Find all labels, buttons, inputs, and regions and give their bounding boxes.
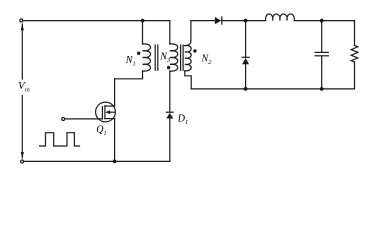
wire top rail (Vin+ to N3 top corner) [23,20,170,22]
label Q1 [96,124,106,137]
gate terminal circle [62,118,65,121]
label N2 [201,53,213,66]
wire N2 top lead up to secondary rail [185,21,191,46]
diode D1 (reset diode, cathode up) [166,112,173,118]
label N1 [125,55,136,68]
wire gate lead [65,118,102,120]
Vin source arrow (double-headed, gap for label) [21,24,24,159]
wire N2 bottom lead to secondary bottom rail [185,71,191,89]
inductor L (output filter) [266,14,295,21]
input terminal - (bottom left) [21,160,24,163]
transformer core (bars between N1 and N3) [155,45,158,70]
wire N3 top stem (from top rail corner) [169,21,171,44]
svg-text:N3: N3 [159,51,171,64]
transformer winding N2 [185,46,191,71]
capacitor C (output filter) [315,21,328,89]
transformer winding N1 [143,44,151,71]
junction node (N1 top tap on rail) [141,19,145,23]
svg-text:N2: N2 [201,53,213,66]
junction node (capacitor bottom) [320,87,324,91]
wire secondary bottom rail [191,88,354,90]
junction node (MOSFET source on bottom rail) [113,160,117,164]
resistor R (load) [351,21,358,89]
wire secondary top rail (N2 to rectifier diode) [191,20,215,22]
wire N1 bottom stem to MOSFET drain [115,71,143,79]
junction node (capacitor top) [320,19,324,23]
wire MOSFET drain up / source down [114,79,116,162]
phase dot N1 [137,52,140,55]
svg-text:N1: N1 [125,55,136,68]
phase dot N2 [193,49,196,52]
wire inductor to resistor corner [294,20,354,22]
transformer core (bars between N3 and N2) [181,45,184,70]
wire rectifier to inductor [222,20,266,22]
phase dot N3 [167,66,170,69]
transformer winding N3 [170,44,178,71]
wire bottom rail (Vin- to D1 branch) [24,160,170,162]
freewheeling diode (cathode up) [242,21,249,89]
svg-text:D1: D1 [177,113,188,126]
wire N1 top stem [142,21,144,44]
rectifier diode (series, anode left) [215,17,222,24]
gate drive square wave [40,133,80,146]
wire D1 anode down to bottom rail [169,119,171,162]
svg-text:Vin: Vin [18,80,30,94]
input terminal + (top left) [20,19,23,22]
svg-text:Q1: Q1 [96,124,106,137]
label Vin [18,80,30,94]
junction node (freewheel diode bottom) [244,87,248,91]
junction node (freewheel diode top) [244,19,248,23]
wire N3 bottom stem to D1 cathode [169,71,171,112]
label N3 [159,51,171,64]
transistor Q1 (n-channel MOSFET) [96,102,116,122]
label D1 [177,113,188,126]
